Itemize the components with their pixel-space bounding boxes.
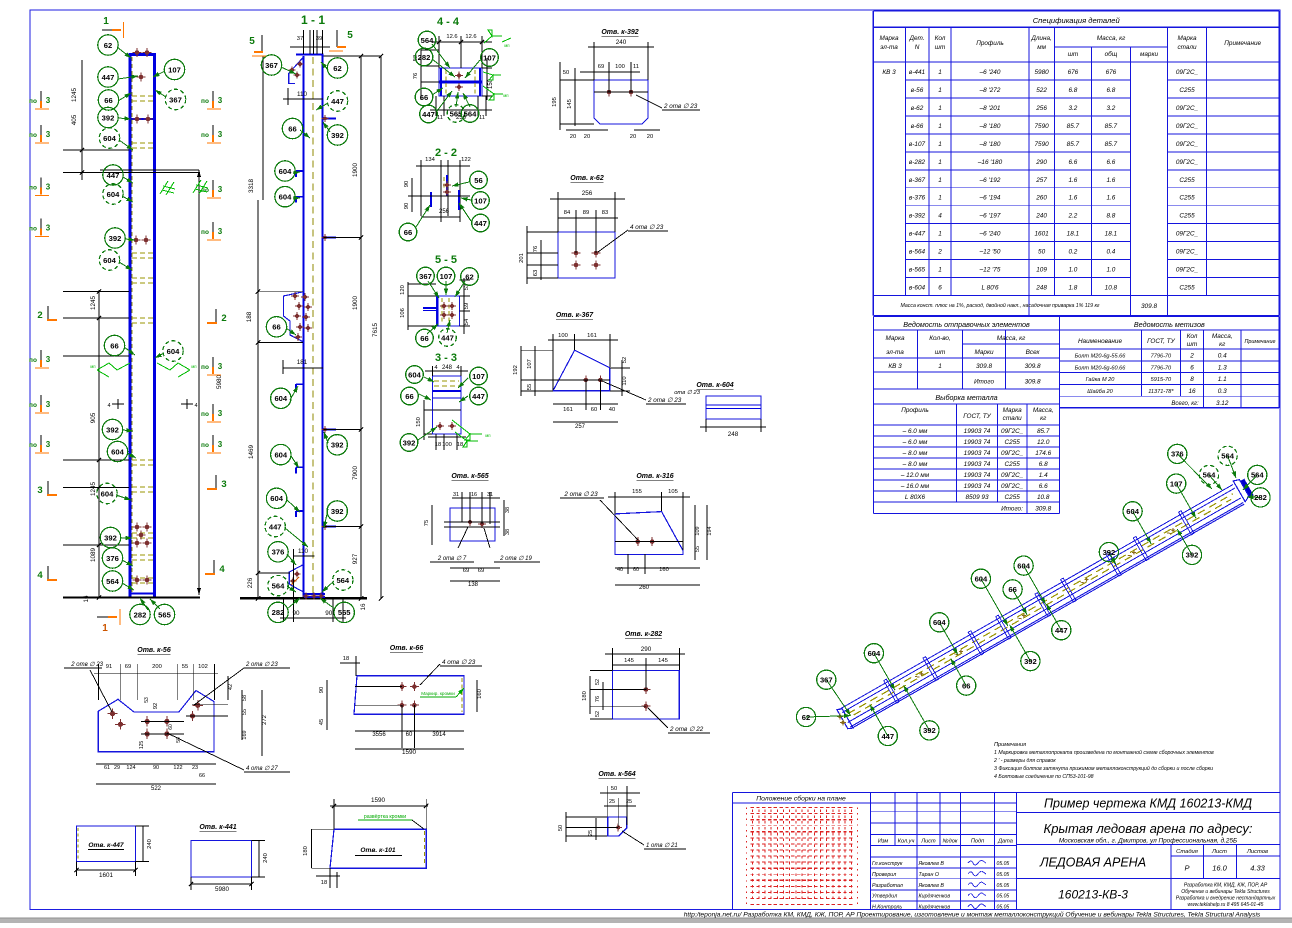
detail k-564	[558, 771, 686, 849]
svg-text:Болт М20-6g-55.66: Болт М20-6g-55.66	[1075, 354, 1127, 360]
svg-text:Р: Р	[1184, 864, 1189, 873]
column 1 olive stiffener dashes	[132, 57, 153, 592]
svg-text:ГОСТ, ТУ: ГОСТ, ТУ	[963, 413, 991, 420]
svg-text:в-56: в-56	[911, 87, 924, 94]
svg-text:367: 367	[820, 676, 833, 685]
detail k-392	[552, 29, 700, 140]
svg-text:240: 240	[263, 853, 269, 863]
svg-text:125: 125	[139, 741, 145, 750]
label circle 66	[266, 317, 286, 337]
svg-text:138: 138	[468, 582, 479, 588]
svg-text:145: 145	[658, 658, 668, 664]
leader line	[323, 509, 328, 528]
svg-text:1900: 1900	[352, 163, 359, 178]
svg-text:С255: С255	[1005, 494, 1021, 501]
svg-text:5980: 5980	[1034, 69, 1049, 76]
label circle 367	[817, 670, 836, 689]
svg-text:6.6: 6.6	[1039, 483, 1048, 490]
svg-text:192: 192	[513, 365, 519, 375]
svg-text:4: 4	[219, 564, 225, 575]
svg-text:181: 181	[297, 359, 308, 366]
svg-text:31: 31	[487, 492, 493, 498]
label circle 62	[327, 58, 347, 78]
svg-text:–8 ′201: –8 ′201	[979, 105, 1001, 112]
label circle 107	[481, 49, 499, 67]
svg-text:эл-та: эл-та	[886, 349, 904, 356]
svg-text:447: 447	[881, 732, 894, 741]
svg-text:25: 25	[626, 799, 632, 805]
svg-text:392: 392	[104, 533, 117, 542]
svg-text:– 12.0 мм: – 12.0 мм	[900, 472, 930, 479]
leader line	[1228, 456, 1236, 478]
svg-text:565: 565	[338, 608, 351, 617]
svg-text:Марка: Марка	[885, 335, 905, 342]
leader line	[806, 714, 851, 718]
svg-text:Марка: Марка	[879, 35, 899, 42]
label circle 107	[470, 367, 488, 385]
label circle 564	[333, 570, 353, 590]
svg-text:240: 240	[616, 39, 627, 46]
svg-text:1.1: 1.1	[1218, 376, 1227, 383]
mark po-3	[201, 404, 223, 422]
svg-text:66: 66	[199, 773, 205, 779]
mark po-3	[29, 91, 51, 109]
svg-text:40: 40	[617, 567, 623, 573]
svg-text:188: 188	[246, 311, 253, 322]
svg-text:шт: шт	[935, 44, 946, 51]
svg-text:31: 31	[453, 492, 459, 498]
column 1 base line	[63, 596, 200, 598]
svg-text:6: 6	[938, 285, 942, 292]
label circle 392	[327, 125, 347, 145]
svg-text:6: 6	[1190, 364, 1194, 371]
label circle 66	[282, 118, 302, 138]
svg-text:по: по	[29, 357, 37, 364]
view 1-1 lower gusset	[289, 548, 314, 598]
label circle 56	[470, 171, 488, 189]
svg-text:–16 ′180: –16 ′180	[977, 159, 1003, 166]
label circle 392	[400, 434, 418, 452]
svg-text:145: 145	[567, 99, 573, 109]
leader line	[287, 554, 296, 565]
svg-text:Н.Контроль: Н.Контроль	[872, 905, 902, 911]
leader line	[300, 130, 310, 138]
svg-text:09Г2С_: 09Г2С_	[1001, 428, 1024, 435]
svg-text:122: 122	[461, 157, 471, 163]
section mark 2	[207, 309, 227, 324]
leader line	[321, 62, 328, 70]
leader line	[1010, 625, 1031, 661]
svg-text:05.05: 05.05	[997, 905, 1010, 911]
svg-text:1: 1	[938, 195, 942, 202]
svg-text:90: 90	[404, 181, 410, 187]
svg-text:мп: мп	[504, 43, 509, 48]
svg-text:6.8: 6.8	[1068, 87, 1077, 94]
svg-text:282: 282	[272, 608, 285, 617]
label circle 447	[420, 105, 438, 123]
detail k-56	[64, 647, 290, 792]
svg-text:Примечание: Примечание	[1244, 339, 1275, 345]
leader line	[452, 182, 469, 187]
svg-text:Масса,: Масса,	[1033, 407, 1054, 414]
leader line	[1046, 604, 1061, 630]
svg-text:10.8: 10.8	[1105, 285, 1118, 292]
label circle 392	[1021, 652, 1040, 671]
svg-text:20: 20	[630, 134, 636, 140]
svg-text:Марка: Марка	[1003, 407, 1023, 414]
mark po-3	[29, 395, 51, 413]
svg-text:Кол-во,: Кол-во,	[929, 335, 951, 342]
svg-text:180: 180	[582, 691, 588, 701]
svg-text:62: 62	[333, 64, 341, 73]
leader line	[1024, 566, 1046, 605]
leader line	[117, 47, 131, 58]
svg-text:109: 109	[695, 526, 701, 535]
svg-text:–6 ′194: –6 ′194	[979, 195, 1001, 202]
mark po-3	[201, 357, 223, 375]
svg-text:927: 927	[352, 553, 359, 564]
svg-text:Масса,: Масса,	[1212, 333, 1233, 340]
leader line	[323, 122, 330, 132]
label circle 392	[920, 721, 939, 740]
svg-text:3: 3	[46, 400, 51, 409]
svg-text:7796-70: 7796-70	[1151, 365, 1172, 371]
svg-text:в-447: в-447	[909, 231, 926, 238]
label circle 282	[268, 602, 288, 622]
label circle 367	[417, 267, 435, 285]
svg-text:89: 89	[583, 210, 589, 216]
svg-text:447: 447	[107, 171, 120, 180]
svg-text:60: 60	[633, 567, 639, 573]
leader line	[287, 500, 300, 512]
leader line	[122, 196, 133, 202]
leader line	[324, 432, 328, 443]
svg-text:62: 62	[104, 41, 112, 50]
svg-text:564: 564	[1203, 471, 1216, 480]
svg-text:522: 522	[151, 786, 162, 792]
svg-text:2: 2	[37, 310, 42, 321]
svg-text:1: 1	[938, 177, 942, 184]
svg-text:52: 52	[622, 357, 628, 363]
svg-text:3: 3	[218, 409, 223, 418]
svg-text:3: 3	[46, 96, 51, 105]
leader line	[1133, 511, 1152, 544]
label circle 376	[102, 548, 122, 568]
svg-text:1: 1	[938, 141, 942, 148]
svg-text:09Г2С_: 09Г2С_	[1001, 450, 1024, 457]
svg-text:–12 ′75: –12 ′75	[979, 267, 1001, 274]
svg-text:1089: 1089	[90, 548, 97, 563]
svg-text:19903 74: 19903 74	[964, 439, 991, 446]
svg-text:С255: С255	[1179, 195, 1195, 202]
svg-text:2 отв ∅ 23: 2 отв ∅ 23	[70, 661, 103, 668]
svg-text:0.4: 0.4	[1218, 353, 1227, 360]
svg-text:3 Фиксация болтов затянута пр: 3 Фиксация болтов затянута прижимом мета…	[994, 765, 1213, 772]
svg-text:Кол: Кол	[935, 35, 946, 42]
label circle 66	[1003, 580, 1022, 599]
label circle 604	[406, 366, 424, 384]
svg-text:– 8.0 мм: – 8.0 мм	[902, 461, 928, 468]
svg-text:по: по	[201, 442, 209, 449]
label circle 565	[154, 604, 174, 624]
leader line	[416, 205, 430, 227]
svg-text:604: 604	[279, 167, 292, 176]
column 1 right dimension chain 5980	[100, 170, 223, 595]
svg-text:L 80Х6: L 80Х6	[905, 494, 926, 501]
svg-text:90: 90	[404, 203, 410, 209]
leader line	[874, 653, 895, 690]
leader line	[456, 688, 464, 697]
svg-text:905: 905	[90, 412, 97, 423]
svg-text:376: 376	[272, 548, 285, 557]
svg-text:16: 16	[1188, 388, 1196, 395]
svg-text:Пример чертежа КМД 160213-КМД: Пример чертежа КМД 160213-КМД	[1044, 797, 1252, 811]
svg-text:С255: С255	[1179, 87, 1195, 94]
detail k-604	[674, 382, 766, 438]
svg-text:С255: С255	[1179, 285, 1195, 292]
svg-text:604: 604	[408, 370, 421, 379]
svg-text:18.1: 18.1	[1067, 231, 1080, 238]
svg-text:–8 ′272: –8 ′272	[979, 87, 1001, 94]
svg-text:522: 522	[1036, 87, 1047, 94]
svg-text:Кирдяченков: Кирдяченков	[919, 905, 951, 911]
mark po-3	[29, 350, 51, 368]
label circle 66	[415, 88, 433, 106]
svg-text:L 80′6: L 80′6	[981, 285, 999, 292]
svg-text:50: 50	[558, 825, 564, 831]
svg-text:Кол: Кол	[1187, 333, 1198, 340]
svg-text:447: 447	[472, 392, 485, 401]
svg-text:по: по	[201, 364, 209, 371]
mark po-3	[29, 125, 51, 143]
svg-text:564: 564	[272, 581, 285, 590]
svg-text:4 отв ∅ 27: 4 отв ∅ 27	[246, 765, 278, 772]
svg-text:90: 90	[153, 765, 159, 771]
section 5-5 drawing	[400, 278, 470, 334]
svg-text:4: 4	[107, 403, 110, 409]
svg-text:С255: С255	[1179, 213, 1195, 220]
leader line	[291, 456, 299, 468]
svg-text:19903 74: 19903 74	[964, 461, 991, 468]
svg-text:2 отв ∅ 23: 2 отв ∅ 23	[245, 661, 278, 668]
svg-text:447: 447	[1055, 626, 1068, 635]
svg-text:4: 4	[194, 403, 197, 409]
svg-text:Яковлев В: Яковлев В	[918, 861, 945, 867]
svg-text:1245: 1245	[90, 482, 97, 497]
svg-text:3: 3	[218, 185, 223, 194]
leader line	[826, 680, 850, 716]
leader line	[461, 197, 471, 201]
svg-text:392: 392	[106, 425, 119, 434]
svg-text:5980: 5980	[215, 886, 230, 893]
svg-text:Отв. к-447: Отв. к-447	[88, 842, 124, 849]
label circle 604	[271, 388, 291, 408]
svg-text:40: 40	[609, 407, 615, 413]
view 1-1 section 5 marks	[249, 30, 353, 56]
leader line	[455, 281, 465, 297]
svg-text:1: 1	[938, 69, 942, 76]
svg-text:–8 ′180: –8 ′180	[979, 123, 1001, 130]
column 1 section marks	[97, 16, 124, 634]
svg-text:392: 392	[1024, 657, 1037, 666]
svg-text:604: 604	[1126, 507, 1139, 516]
label circle 107	[1167, 474, 1186, 493]
leader line	[418, 427, 437, 440]
label circle 604	[107, 441, 127, 461]
leader line	[119, 262, 132, 270]
svg-text:18: 18	[343, 656, 349, 662]
svg-text:09Г2С_: 09Г2С_	[1176, 105, 1199, 112]
svg-text:564: 564	[1221, 452, 1234, 461]
svg-text:мп: мп	[503, 93, 508, 98]
svg-text:10.8: 10.8	[1037, 494, 1050, 501]
svg-text:–8 ′180: –8 ′180	[979, 141, 1001, 148]
leader line	[459, 203, 471, 221]
svg-text:309.8: 309.8	[1025, 379, 1041, 386]
svg-text:3318: 3318	[248, 179, 255, 194]
svg-text:160: 160	[659, 567, 669, 573]
detail k-282	[582, 631, 710, 733]
leader line	[870, 705, 888, 736]
svg-text:76: 76	[413, 73, 419, 79]
leader line	[281, 67, 296, 74]
svg-text:в-282: в-282	[909, 159, 926, 166]
svg-text:С255: С255	[1179, 177, 1195, 184]
svg-text:Итого: Итого	[974, 379, 994, 386]
svg-text:3: 3	[218, 440, 223, 449]
svg-text:20: 20	[647, 134, 653, 140]
svg-text:392: 392	[923, 726, 936, 735]
svg-text:по: по	[29, 226, 37, 233]
section 2-2 drawing	[404, 157, 471, 222]
svg-text:564: 564	[336, 576, 349, 585]
svg-text:– 6.0 мм: – 6.0 мм	[902, 439, 928, 446]
label circle 564	[1218, 446, 1237, 465]
label circle 447	[327, 91, 347, 111]
label circle 604	[930, 613, 949, 632]
svg-text:85.7: 85.7	[1105, 123, 1118, 130]
label circle 66	[957, 676, 976, 695]
svg-text:1601: 1601	[99, 872, 114, 879]
svg-text:61: 61	[104, 765, 110, 771]
svg-text:25: 25	[588, 830, 594, 836]
svg-text:5915-70: 5915-70	[1151, 377, 1172, 383]
svg-text:Шайба 20: Шайба 20	[1087, 388, 1113, 395]
leader line	[118, 75, 138, 79]
svg-text:5: 5	[347, 30, 353, 41]
view 1-1 right plate marks	[322, 115, 336, 530]
svg-text:3: 3	[218, 227, 223, 236]
svg-text:37: 37	[297, 36, 303, 42]
svg-text:161: 161	[587, 333, 597, 339]
svg-text:3: 3	[46, 130, 51, 139]
leader line	[127, 453, 136, 458]
svg-text:66: 66	[272, 323, 280, 332]
svg-text:Отв. к-316: Отв. к-316	[636, 473, 673, 480]
view 1-1 left dimension chain	[240, 56, 303, 601]
svg-text:12.6: 12.6	[465, 34, 476, 40]
svg-text:Таран О: Таран О	[919, 872, 939, 878]
svg-text:392: 392	[331, 131, 344, 140]
svg-text:Примечания: Примечания	[994, 742, 1026, 748]
svg-text:155: 155	[632, 489, 642, 495]
svg-text:3: 3	[218, 130, 223, 139]
svg-text:604: 604	[1017, 561, 1030, 570]
label circle 107	[164, 59, 184, 79]
svg-text:1590: 1590	[371, 797, 386, 804]
leader line	[427, 324, 438, 334]
svg-text:1.0: 1.0	[1068, 267, 1077, 274]
svg-text:05.05: 05.05	[997, 883, 1010, 889]
label circle 604	[971, 569, 990, 588]
svg-text:11: 11	[479, 115, 485, 121]
svg-text:84: 84	[564, 210, 571, 216]
section mark 4	[205, 560, 225, 575]
svg-text:Дет.: Дет.	[908, 35, 924, 42]
label circle 392	[100, 527, 120, 547]
svg-text:Профиль: Профиль	[976, 40, 1004, 47]
svg-text:66: 66	[404, 228, 412, 237]
svg-text:367: 367	[169, 95, 182, 104]
svg-text:107: 107	[1170, 479, 1183, 488]
svg-text:2 ′ - размеры для справок: 2 ′ - размеры для справок	[993, 758, 1056, 764]
svg-text:1: 1	[938, 363, 942, 370]
svg-text:256: 256	[1035, 105, 1047, 112]
svg-text:3.12: 3.12	[1216, 400, 1229, 407]
leader line	[1109, 552, 1116, 564]
svg-text:4 - 4: 4 - 4	[437, 16, 460, 28]
label circle 392	[1099, 543, 1118, 562]
svg-text:по: по	[201, 411, 209, 418]
svg-text:в-564: в-564	[909, 249, 926, 256]
svg-text:169: 169	[242, 730, 248, 739]
svg-text:19903 74: 19903 74	[964, 472, 991, 479]
svg-text:Примечание: Примечание	[1224, 40, 1261, 47]
svg-text:Отв. к-56: Отв. к-56	[137, 647, 171, 654]
svg-text:604: 604	[101, 489, 114, 498]
svg-text:11371-78*: 11371-78*	[1148, 389, 1174, 395]
svg-text:Московская обл., г. Дмитров, у: Московская обл., г. Дмитров, ул Професси…	[1059, 836, 1237, 844]
svg-text:Марка: Марка	[1177, 35, 1197, 42]
svg-text:7590: 7590	[1034, 141, 1049, 148]
svg-text:в-66: в-66	[911, 123, 924, 130]
svg-text:19903 74: 19903 74	[964, 450, 991, 457]
svg-text:256: 256	[439, 209, 450, 215]
svg-text:09Г2С_: 09Г2С_	[1176, 69, 1199, 76]
svg-text:Итого:: Итого:	[1001, 506, 1023, 513]
svg-text:7796-70: 7796-70	[1151, 354, 1172, 360]
svg-text:Подп: Подп	[971, 839, 984, 845]
svg-text:12.6: 12.6	[446, 34, 457, 40]
svg-text:38: 38	[505, 529, 511, 535]
svg-text:58: 58	[242, 695, 248, 701]
svg-text:161: 161	[563, 407, 573, 413]
label circle 604	[271, 444, 291, 464]
svg-text:54: 54	[464, 318, 470, 325]
svg-text:кг: кг	[1040, 415, 1047, 422]
leader line	[981, 579, 1008, 626]
svg-text:в-604: в-604	[909, 285, 926, 292]
svg-text:100: 100	[615, 64, 625, 70]
svg-text:Наименование: Наименование	[1078, 338, 1123, 345]
leader line	[290, 386, 298, 400]
svg-text:604: 604	[933, 618, 946, 627]
svg-text:Спецификация деталей: Спецификация деталей	[1033, 16, 1121, 25]
svg-text:200: 200	[152, 664, 162, 670]
svg-text:КВ 3: КВ 3	[888, 363, 902, 370]
svg-text:1: 1	[938, 159, 942, 166]
mark po-3	[201, 125, 223, 143]
